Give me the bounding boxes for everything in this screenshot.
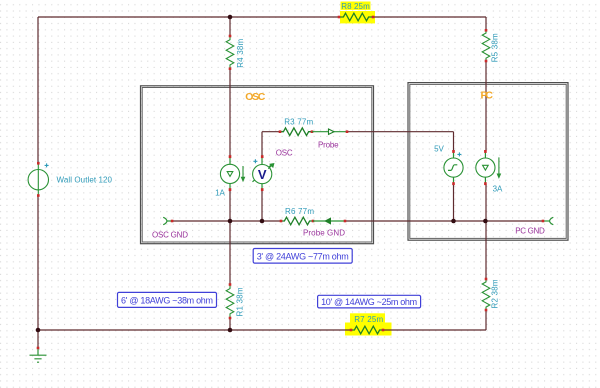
junction top R4 (228, 15, 233, 20)
OSC box (141, 86, 374, 244)
probe gnd net flag (313, 218, 346, 224)
svg-text:PC: PC (480, 90, 493, 102)
svg-text:Wall Outlet 120: Wall Outlet 120 (57, 176, 113, 185)
svg-text:OSC: OSC (245, 91, 265, 103)
svg-text:Probe GND: Probe GND (303, 229, 345, 238)
wire gnd horizontal (345,221)-(543,221) (345, 220, 543, 222)
probe net flag (312, 129, 348, 134)
wire gnd horizontal (172,221)-(281,221) (172, 220, 281, 222)
wire probe down to 5V (453.5,131.7)-(453.5,151) (453, 132, 455, 151)
junction R1 bottom (228, 328, 233, 333)
svg-text:R1 38m: R1 38m (236, 287, 245, 316)
highlight R8 body (340, 11, 375, 23)
wire right vertical (486,310)-(486,330) (485, 310, 487, 330)
current source 1A (220, 155, 244, 191)
highlight R7 body (345, 323, 392, 336)
resistor R5 (482, 29, 490, 62)
voltage source 5V (444, 150, 463, 185)
wire right vertical (486,221)-(486,279) (485, 221, 487, 279)
svg-text:R2 38m: R2 38m (491, 279, 500, 308)
wire left vertical lower (38,195.5)-(38,330) (37, 196, 39, 331)
svg-text:10' @ 14AWG ~25m ohm: 10' @ 14AWG ~25m ohm (321, 297, 417, 307)
svg-text:OSC GND: OSC GND (152, 231, 188, 240)
annotation 10' @ 14AWG ~25m ohm (318, 295, 421, 308)
junction 3A gnd (483, 219, 488, 224)
highlight R7 label (350, 313, 385, 323)
wire right vertical (486,184)-(486,221) (485, 184, 487, 221)
resistor R4 (226, 35, 234, 70)
wire R1 branch (230,221)-(230,284.5) (229, 221, 231, 285)
ground (30, 347, 47, 363)
wire R4 branch (230,17)-(230,36) (229, 17, 231, 36)
wire voltmeter bottom (262,190)-(262,221) (261, 190, 263, 221)
wire bottom (38,330)-(351,330) (38, 329, 351, 331)
resistor R8 (338, 13, 375, 21)
svg-text:OSC: OSC (276, 149, 293, 158)
resistor R2 (482, 278, 490, 312)
annotation 6' @ 18AWG ~38m ohm (118, 292, 217, 307)
highlight R8 label (341, 2, 371, 10)
svg-text:R4 38m: R4 38m (236, 38, 245, 67)
wire R1 to bottom (230,318)-(230,330) (229, 318, 231, 330)
wire 5V to gnd (453.5,184)-(453.5,221) (453, 184, 455, 221)
wire probe horizontal (347,131.7)-(453.5,131.7) (347, 131, 454, 133)
voltmeter OSC (253, 155, 274, 191)
wire bottom right (383,330)-(486,330) (383, 329, 486, 331)
junction 5V gnd (451, 219, 456, 224)
svg-text:3A: 3A (493, 185, 503, 194)
wire 1A to gnd (230,190)-(230,221) (229, 190, 231, 221)
svg-text:R6 77m: R6 77m (285, 207, 314, 216)
resistor R7 (350, 326, 385, 334)
svg-text:R8 25m: R8 25m (341, 2, 370, 11)
svg-text:6' @ 18AWG ~38m ohm: 6' @ 18AWG ~38m ohm (121, 295, 213, 305)
svg-text:R3 77m: R3 77m (284, 118, 313, 127)
resistor R3 (279, 128, 314, 136)
OSC GND terminal (163, 217, 173, 224)
wire probe horizontal (262,131.7)-(280,131.7) (262, 131, 280, 133)
svg-text:R5 38m: R5 38m (491, 33, 500, 62)
junction bottom left (36, 328, 41, 333)
wire voltmeter top (262,131.7)-(262,156) (261, 132, 263, 156)
annotation 3' @ 24AWG ~77m ohm (253, 249, 352, 264)
PC GND terminal (542, 217, 554, 224)
wire left vertical upper (38,17)-(38,163.3) (37, 17, 39, 163)
resistor R6 (280, 217, 315, 225)
wire R4 to 1A (230,68.7)-(230,156) (229, 69, 231, 156)
svg-text:V: V (258, 167, 267, 182)
wire right vertical (486,17)-(486,30.3) (485, 17, 487, 30)
svg-text:3' @ 24AWG ~77m ohm: 3' @ 24AWG ~77m ohm (257, 251, 349, 261)
svg-text:R7 25m: R7 25m (354, 315, 383, 324)
wire right vertical (486,61)-(486,151) (485, 61, 487, 151)
resistor R1 (226, 283, 234, 319)
wire top (38,17)-(339,17) (38, 16, 339, 18)
junction voltmeter gnd (260, 219, 265, 224)
svg-text:PC GND: PC GND (515, 227, 545, 236)
wire top right (373,17)-(486,17) (373, 16, 486, 18)
current source 3A (476, 150, 501, 185)
svg-text:1A: 1A (215, 189, 225, 198)
svg-text:5V: 5V (434, 145, 444, 154)
PC box (408, 83, 568, 241)
svg-text:Probe: Probe (318, 141, 339, 150)
voltage source Wall Outlet 120 (28, 162, 49, 197)
wire left ground stub (38,330)-(38,348) (37, 330, 39, 348)
junction 1A gnd (228, 219, 233, 224)
